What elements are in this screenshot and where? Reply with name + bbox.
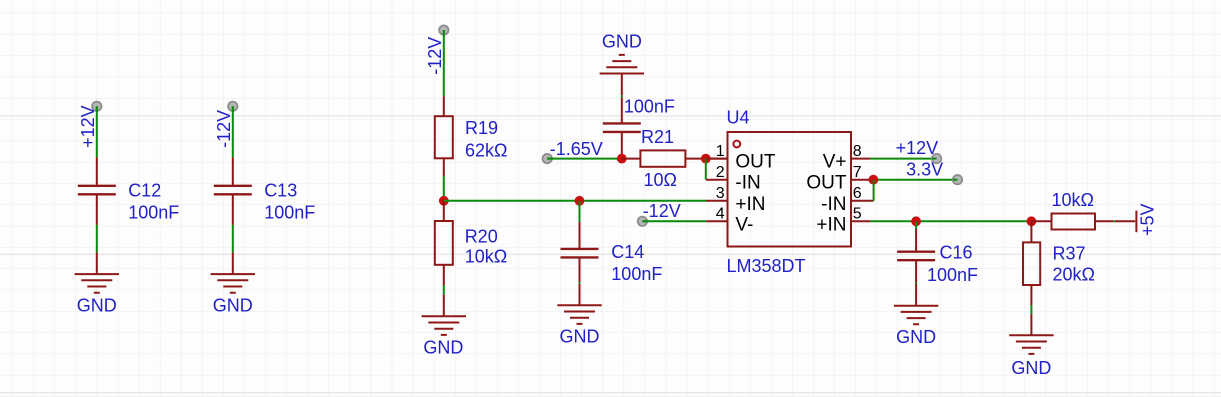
resistor R21 [622, 150, 728, 166]
svg-text:3: 3 [716, 185, 725, 202]
pin 1 OUT [706, 143, 776, 173]
power port +5V [1115, 203, 1158, 236]
resistor 10k (horizontal) [1031, 214, 1113, 230]
svg-text:U4: U4 [727, 107, 750, 127]
wire node F to C16 [915, 221, 917, 229]
svg-text:+5V: +5V [1137, 203, 1157, 236]
pin 2 -IN [706, 164, 761, 194]
svg-text:2: 2 [716, 164, 725, 181]
wire node A to pin 3 [444, 200, 706, 202]
svg-text:100nF: 100nF [128, 203, 179, 223]
svg-text:GND: GND [560, 327, 600, 347]
wire -12V to R19 [443, 30, 445, 96]
resistor R37 [1023, 221, 1040, 305]
svg-text:1: 1 [716, 143, 725, 160]
op-amp U4 body [728, 132, 852, 247]
svg-text:+12V: +12V [896, 138, 939, 158]
junction node C (cap/R21 tap) [617, 154, 627, 164]
wire pin 8 to +12V [870, 158, 937, 160]
wire node B to C14 [579, 201, 581, 222]
wire R37 to ground [1030, 305, 1032, 314]
wire pin 7 to 3.3V [870, 179, 958, 181]
pin 4 V- [706, 206, 753, 236]
svg-text:GND: GND [213, 296, 253, 316]
resistor R19 [435, 96, 453, 176]
svg-text:R20: R20 [465, 227, 498, 247]
svg-text:-IN: -IN [735, 173, 760, 194]
junction node F (C16 tap) [911, 216, 921, 226]
svg-text:100nF: 100nF [611, 264, 662, 284]
svg-text:-12V: -12V [643, 201, 681, 221]
svg-text:+12V: +12V [78, 105, 98, 148]
pin 3 +IN [706, 185, 766, 215]
junction node E (pin7 feedback tap) [869, 175, 879, 185]
capacitor 100nF (top bypass) [603, 98, 641, 159]
ground GND below R37 [1009, 314, 1053, 378]
svg-text:10kΩ: 10kΩ [465, 247, 507, 267]
svg-text:R21: R21 [641, 127, 674, 147]
svg-text:V+: V+ [823, 152, 847, 173]
power port -12V at C13 top [214, 102, 238, 148]
pin 8 V+ [823, 143, 870, 173]
svg-text:GND: GND [602, 31, 642, 51]
capacitor C16 [897, 229, 935, 283]
U4 pin 1 orientation dot [733, 141, 740, 148]
svg-text:GND: GND [77, 296, 117, 316]
wire feedback pin1 to pin2 [705, 159, 707, 180]
svg-text:LM358DT: LM358DT [727, 256, 806, 276]
svg-text:GND: GND [423, 338, 463, 358]
svg-text:C12: C12 [128, 181, 161, 201]
svg-text:3.3V: 3.3V [906, 159, 943, 179]
capacitor C14 [561, 222, 599, 282]
wire -12V to C13 [232, 106, 234, 157]
pin 7 OUT [806, 164, 870, 194]
ground GND above top 100nF cap (inverted) [600, 31, 644, 95]
svg-text:20kΩ: 20kΩ [1053, 264, 1095, 284]
wire -12V to pin 4 [642, 220, 706, 222]
wire C16 to ground [915, 283, 917, 286]
svg-text:10kΩ: 10kΩ [1052, 190, 1094, 210]
ground GND below C14 [557, 284, 601, 347]
ground GND below R20 [422, 295, 466, 358]
svg-text:GND: GND [896, 327, 936, 347]
junction node B (C14 tap) [575, 196, 585, 206]
wire C13 to ground [232, 225, 234, 253]
junction node G (R37 / 10k tap) [1027, 216, 1037, 226]
ground GND below C12 [75, 253, 119, 316]
wire pin 5 to node G [870, 220, 1031, 222]
svg-text:100nF: 100nF [927, 265, 978, 285]
svg-text:5: 5 [853, 206, 862, 223]
junction node A (R19/R20 divider tap) [439, 196, 449, 206]
resistor R20 [435, 201, 453, 285]
power port -12V at pin 4 [638, 201, 681, 226]
svg-text:100nF: 100nF [264, 203, 315, 223]
svg-text:62kΩ: 62kΩ [465, 141, 507, 161]
wire -1.65V to node C [547, 158, 622, 160]
junction node D (pin1 feedback tap) [701, 154, 711, 164]
capacitor C13 [214, 158, 252, 225]
wire C14 to ground [579, 282, 581, 284]
svg-text:10Ω: 10Ω [644, 170, 677, 190]
svg-text:GND: GND [1011, 358, 1051, 378]
svg-text:C16: C16 [940, 242, 973, 262]
svg-text:4: 4 [716, 206, 725, 223]
pin 6 -IN [821, 185, 873, 215]
svg-text:8: 8 [853, 143, 862, 160]
svg-text:C13: C13 [264, 181, 297, 201]
power port 3.3V [906, 159, 962, 184]
svg-text:-IN: -IN [821, 194, 846, 215]
power port +12V at pin 8 [896, 138, 942, 163]
svg-text:OUT: OUT [806, 173, 847, 194]
wire R20 to ground [443, 285, 445, 295]
svg-text:7: 7 [853, 164, 862, 181]
svg-text:100nF: 100nF [624, 96, 675, 116]
power port -1.65V [543, 139, 603, 163]
svg-text:R19: R19 [465, 118, 498, 138]
wire +12V to C12 [96, 106, 98, 157]
svg-text:OUT: OUT [735, 152, 776, 173]
svg-text:-1.65V: -1.65V [550, 139, 603, 159]
wire top GND to 100nF cap [621, 95, 623, 98]
wire C12 to ground [96, 225, 98, 253]
svg-text:C14: C14 [611, 242, 644, 262]
wire feedback pin7 to pin6 [873, 180, 875, 201]
svg-text:+IN: +IN [816, 214, 846, 235]
svg-text:6: 6 [853, 185, 862, 202]
svg-text:V-: V- [735, 214, 753, 235]
svg-text:+IN: +IN [735, 194, 765, 215]
wire R19 to node A [443, 176, 445, 201]
svg-text:-12V: -12V [425, 37, 445, 75]
power port +12V at C12 top [78, 102, 102, 148]
svg-text:-12V: -12V [214, 110, 234, 148]
wire 10k to +5V [1113, 220, 1115, 222]
svg-text:R37: R37 [1053, 243, 1086, 263]
pin 5 +IN [816, 206, 870, 236]
power port -12V at R19 top [425, 25, 449, 74]
capacitor C12 [78, 158, 116, 225]
ground GND below C13 [211, 253, 255, 316]
ground GND below C16 [894, 284, 938, 347]
